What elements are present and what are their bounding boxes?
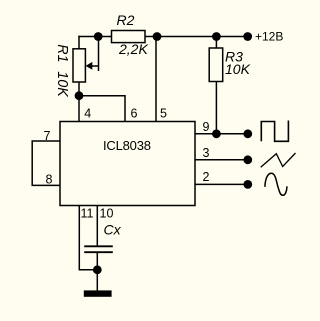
wire pin 10 to capacitor xyxy=(96,206,98,246)
svg-text:Cx: Cx xyxy=(104,222,122,238)
wire pins 7-8 bracket xyxy=(32,141,60,185)
svg-text:R2: R2 xyxy=(117,12,135,28)
node terminal pin 9 output xyxy=(243,129,252,138)
triangle wave icon xyxy=(261,153,296,167)
wire pin 5 to rail xyxy=(155,37,157,122)
svg-text:5: 5 xyxy=(160,107,167,121)
svg-text:8: 8 xyxy=(46,173,53,187)
svg-text:ICL8038: ICL8038 xyxy=(103,138,151,153)
node terminal +12V xyxy=(243,32,252,41)
svg-text:7: 7 xyxy=(44,129,51,143)
sine wave icon xyxy=(265,173,287,195)
square wave icon xyxy=(261,121,288,142)
svg-text:11: 11 xyxy=(81,207,94,221)
node junction pin 10 / pin 11 / ground xyxy=(93,265,102,274)
svg-text:2: 2 xyxy=(203,170,210,184)
wire capacitor to ground xyxy=(96,253,98,291)
svg-text:10: 10 xyxy=(100,207,114,221)
ground xyxy=(84,290,112,296)
svg-text:3: 3 xyxy=(203,146,210,160)
wire R1 bottom lead to pin 4 xyxy=(78,82,80,122)
resistor R3 body xyxy=(209,48,223,82)
svg-text:6: 6 xyxy=(131,107,138,121)
wire R1 top lead xyxy=(78,37,80,50)
resistor R2 body xyxy=(112,31,146,43)
capacitor Cx plates xyxy=(84,246,113,252)
wire top rail +12V xyxy=(79,36,248,38)
svg-text:4: 4 xyxy=(84,107,91,121)
node junction rail / pin 5 xyxy=(153,32,162,41)
wire pin 9 output xyxy=(195,133,248,135)
node junction R1 bottom xyxy=(75,91,84,100)
svg-text:10K: 10K xyxy=(54,71,70,98)
resistor R1 body xyxy=(73,49,85,82)
wire pin 2 output xyxy=(195,183,248,185)
svg-text:2,2K: 2,2K xyxy=(118,41,148,57)
node junction rail / R3 top xyxy=(212,32,221,41)
wire R3 top lead xyxy=(215,37,217,49)
resistor R1 wiper arrowhead xyxy=(86,62,93,70)
wire R3 bottom lead to pin 9 xyxy=(215,82,217,134)
node terminal pin 2 output xyxy=(243,180,252,189)
wire branch from node to pin 6 xyxy=(79,96,125,122)
svg-text:9: 9 xyxy=(203,120,210,134)
svg-text:R1: R1 xyxy=(54,44,70,62)
wire pin 3 output xyxy=(195,159,248,161)
svg-text:+12В: +12В xyxy=(255,30,283,44)
node junction R1 top / wiper / R2 left xyxy=(94,32,103,41)
IC U1 body xyxy=(60,122,195,206)
wire R1 wiper from junction xyxy=(89,37,99,71)
node terminal pin 3 output xyxy=(243,155,252,164)
svg-text:10K: 10K xyxy=(225,61,251,77)
node junction R3 / pin 9 xyxy=(212,129,221,138)
wire pin 11 down and right xyxy=(79,206,97,270)
